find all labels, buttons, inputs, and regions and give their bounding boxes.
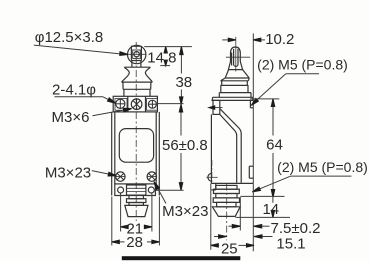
svg-text:28: 28 — [126, 234, 143, 251]
svg-text:25: 25 — [221, 240, 238, 257]
svg-text:14: 14 — [262, 201, 279, 218]
svg-text:38: 38 — [175, 74, 192, 91]
svg-text:(2) M5 (P=0.8): (2) M5 (P=0.8) — [257, 57, 348, 73]
svg-text:M3×6: M3×6 — [52, 109, 90, 126]
svg-text:15.1: 15.1 — [276, 236, 305, 253]
svg-text:(2) M5 (P=0.8): (2) M5 (P=0.8) — [277, 159, 368, 175]
svg-text:64: 64 — [266, 137, 283, 154]
svg-text:2-4.1φ: 2-4.1φ — [52, 82, 96, 99]
svg-text:14.8: 14.8 — [147, 49, 176, 66]
svg-text:56±0.8: 56±0.8 — [162, 137, 208, 154]
svg-text:φ12.5×3.8: φ12.5×3.8 — [35, 29, 104, 46]
svg-text:M3×23: M3×23 — [162, 203, 208, 220]
svg-text:7.5±0.2: 7.5±0.2 — [271, 220, 321, 237]
svg-text:10.2: 10.2 — [265, 31, 294, 48]
svg-text:M3×23: M3×23 — [45, 165, 91, 182]
